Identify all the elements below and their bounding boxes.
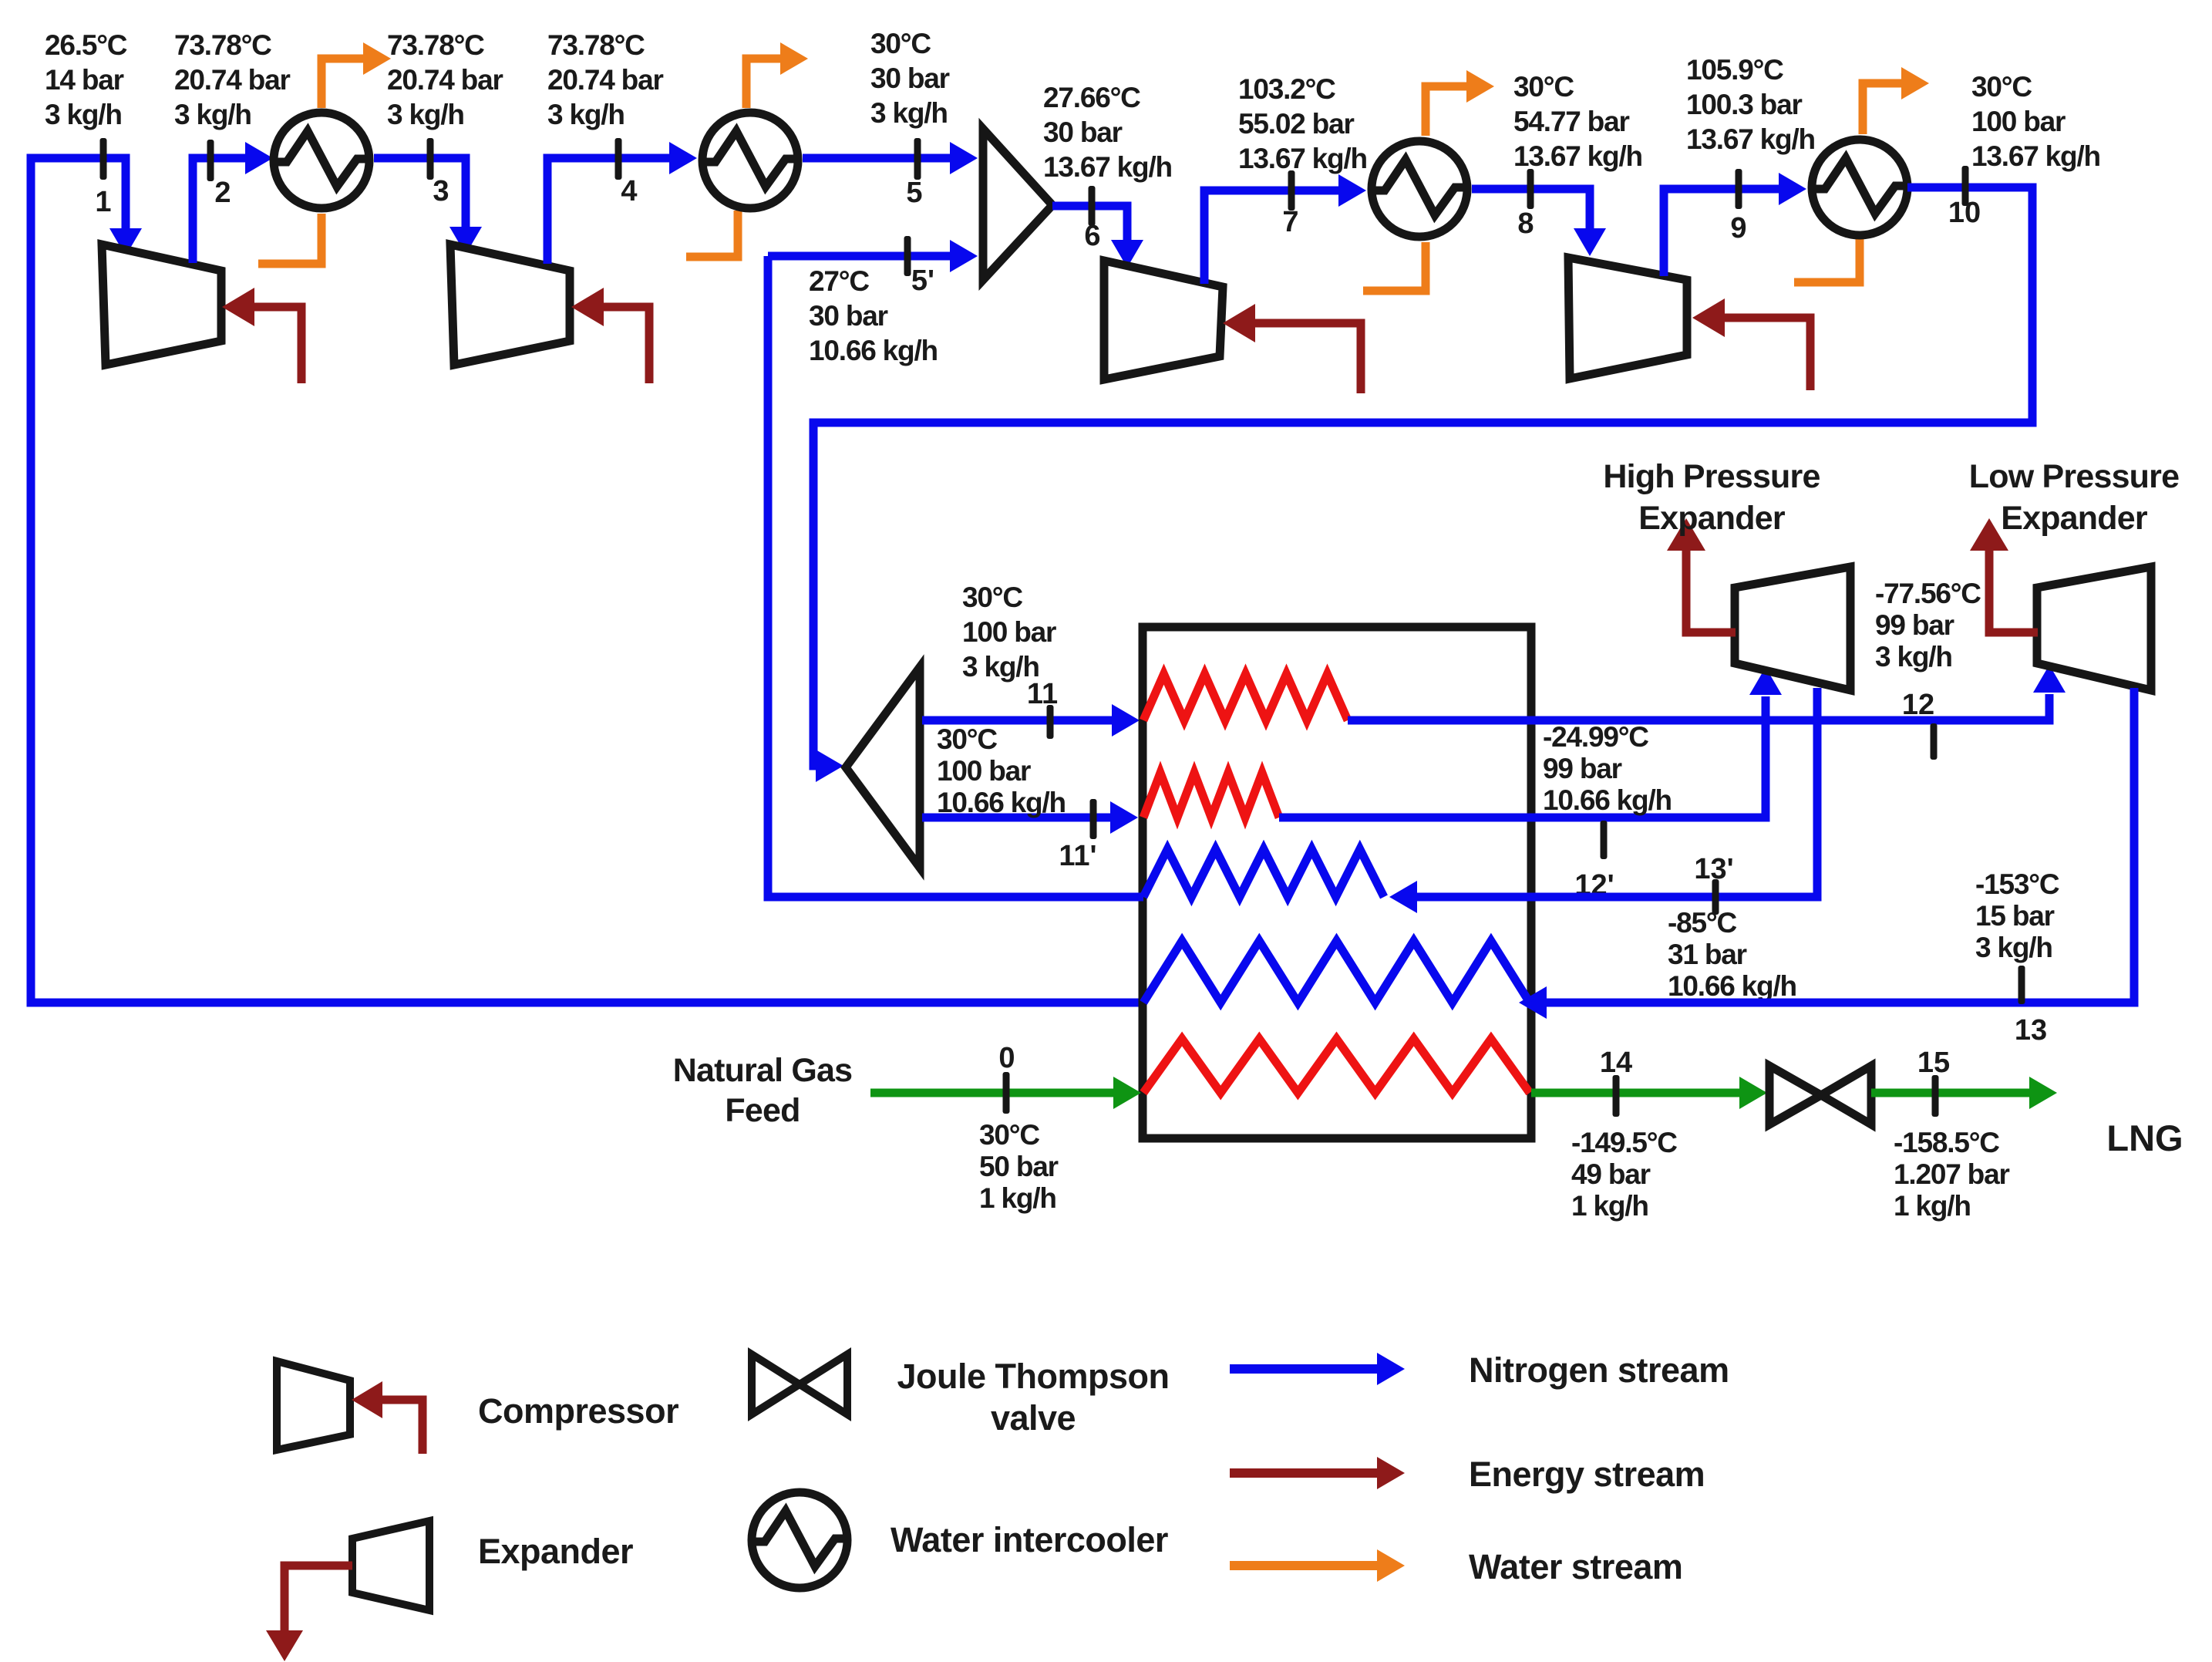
- label Natural Gas Feed: [673, 1052, 853, 1129]
- label High Pressure Expander: [1603, 458, 1820, 537]
- text stream 9 data: [1686, 54, 1815, 155]
- mixer M1: [983, 129, 1052, 280]
- svg-text:1 kg/h: 1 kg/h: [979, 1182, 1056, 1214]
- node tick stream 5prime: [904, 236, 911, 276]
- text stream 8 data: [1513, 71, 1642, 172]
- svg-text:55.02 bar: 55.02 bar: [1238, 108, 1354, 140]
- text stream 4 data: [547, 29, 663, 130]
- HX coil stream 13 (cold): [1143, 941, 1530, 1003]
- svg-text:3 kg/h: 3 kg/h: [962, 651, 1039, 683]
- compressor K3: [1104, 261, 1223, 379]
- svg-text:30°C: 30°C: [937, 723, 997, 755]
- legend compressor symbol: [277, 1361, 350, 1450]
- svg-text:30°C: 30°C: [1513, 71, 1574, 103]
- svg-text:8: 8: [1517, 207, 1534, 240]
- svg-text:10: 10: [1948, 197, 1981, 229]
- node tick stream 9: [1736, 169, 1742, 209]
- svg-text:100 bar: 100 bar: [1971, 106, 2066, 137]
- label stream 12: [1902, 689, 1934, 721]
- svg-text:50 bar: 50 bar: [979, 1151, 1059, 1182]
- svg-text:12: 12: [1902, 689, 1934, 721]
- svg-text:Feed: Feed: [725, 1092, 800, 1129]
- wire stream 5prime: [768, 240, 978, 272]
- svg-text:3 kg/h: 3 kg/h: [174, 99, 251, 130]
- label stream 13: [2015, 1014, 2047, 1047]
- svg-text:100.3 bar: 100.3 bar: [1686, 89, 1802, 120]
- svg-text:73.78°C: 73.78°C: [387, 29, 484, 61]
- wire stream 7: [1204, 174, 1366, 284]
- svg-text:-158.5°C: -158.5°C: [1894, 1127, 1999, 1158]
- node tick stream 3: [427, 138, 434, 180]
- svg-text:5: 5: [906, 177, 922, 209]
- label stream 4: [621, 175, 637, 207]
- node tick stream 10: [1962, 166, 1969, 206]
- text stream 11prime data: [937, 723, 1066, 818]
- wire stream 4: [547, 142, 697, 264]
- legend label Water stream: [1469, 1547, 1682, 1586]
- energy stream into K4: [1692, 298, 1810, 390]
- wire stream 13prime: [1389, 688, 1817, 913]
- wire stream 12 to LP expander: [1348, 665, 2066, 720]
- text stream 3 data: [387, 29, 503, 130]
- svg-text:14: 14: [1600, 1047, 1632, 1079]
- svg-text:30°C: 30°C: [962, 582, 1022, 613]
- svg-text:Natural Gas: Natural Gas: [673, 1052, 853, 1089]
- label stream 12prime: [1574, 869, 1614, 902]
- compressor K1: [102, 244, 221, 365]
- svg-text:31 bar: 31 bar: [1668, 939, 1747, 970]
- wire stream 15 LNG out: [1871, 1077, 2057, 1109]
- node tick stream 12: [1931, 723, 1938, 760]
- svg-text:14 bar: 14 bar: [45, 64, 124, 96]
- label stream 0: [998, 1042, 1015, 1074]
- wire stream 6: [1052, 206, 1143, 268]
- svg-text:3 kg/h: 3 kg/h: [1975, 932, 2052, 963]
- text stream 6 data: [1043, 82, 1172, 183]
- text stream 5prime data: [809, 265, 938, 366]
- svg-text:0: 0: [998, 1042, 1015, 1074]
- svg-text:-149.5°C: -149.5°C: [1571, 1127, 1677, 1158]
- compressor K2: [450, 244, 570, 365]
- svg-text:11: 11: [1027, 678, 1058, 710]
- wire stream 13: [1519, 688, 2134, 1019]
- label stream 2: [214, 177, 231, 209]
- svg-text:15: 15: [1917, 1047, 1950, 1079]
- wire stream 2: [193, 142, 273, 263]
- svg-text:73.78°C: 73.78°C: [174, 29, 271, 61]
- svg-text:20.74 bar: 20.74 bar: [387, 64, 503, 96]
- label stream 10: [1948, 197, 1981, 229]
- svg-text:Energy stream: Energy stream: [1469, 1455, 1705, 1494]
- svg-text:2: 2: [214, 177, 231, 209]
- water intercooler E2: [700, 113, 800, 208]
- label stream 5prime: [911, 265, 934, 297]
- svg-text:13': 13': [1694, 853, 1733, 885]
- label Low Pressure Expander: [1969, 458, 2179, 537]
- label stream 9: [1730, 212, 1746, 244]
- svg-text:5': 5': [911, 265, 934, 297]
- label stream 1: [95, 186, 111, 218]
- wire stream 9: [1664, 173, 1806, 276]
- energy stream into K2: [571, 288, 649, 383]
- water stream into E1: [258, 214, 322, 264]
- water stream into E3: [1363, 242, 1426, 291]
- svg-text:10.66 kg/h: 10.66 kg/h: [1668, 970, 1796, 1002]
- text stream 13prime data: [1668, 907, 1796, 1002]
- svg-text:3 kg/h: 3 kg/h: [45, 99, 122, 130]
- node tick stream 0: [1003, 1072, 1010, 1114]
- node tick stream 1: [100, 138, 107, 180]
- svg-text:100 bar: 100 bar: [937, 755, 1031, 787]
- svg-text:1: 1: [95, 186, 111, 218]
- svg-text:Compressor: Compressor: [478, 1391, 678, 1431]
- energy stream out of HP expander: [1667, 518, 1736, 632]
- label stream 8: [1517, 207, 1534, 240]
- svg-text:11': 11': [1059, 840, 1096, 872]
- svg-text:10.66 kg/h: 10.66 kg/h: [809, 335, 938, 366]
- svg-text:1.207 bar: 1.207 bar: [1894, 1158, 2009, 1190]
- energy stream out of LP expander: [1970, 518, 2038, 632]
- HX coil natural gas (hot): [1143, 1039, 1530, 1093]
- legend label Expander: [478, 1532, 633, 1571]
- legend nitrogen stream arrow: [1230, 1353, 1405, 1385]
- legend label Energy stream: [1469, 1455, 1705, 1494]
- text stream 2 data: [174, 29, 290, 130]
- water stream out of E3: [1426, 70, 1494, 136]
- water intercooler E1: [271, 113, 372, 208]
- legend label Nitrogen stream: [1469, 1350, 1729, 1390]
- svg-text:27°C: 27°C: [809, 265, 869, 297]
- svg-text:20.74 bar: 20.74 bar: [547, 64, 663, 96]
- water stream out of E2: [746, 42, 808, 108]
- node tick stream 11: [1047, 705, 1054, 739]
- svg-text:3 kg/h: 3 kg/h: [547, 99, 625, 130]
- HX coil stream 11prime (hot): [1143, 773, 1279, 818]
- text stream 13 data: [1975, 868, 2059, 963]
- svg-text:13.67 kg/h: 13.67 kg/h: [1043, 151, 1172, 183]
- legend Joule Thompson valve symbol: [752, 1354, 847, 1414]
- wire stream 12prime to HP expander: [1279, 667, 1782, 818]
- text stream 5 data: [870, 28, 950, 129]
- svg-text:-24.99°C: -24.99°C: [1543, 721, 1648, 753]
- svg-text:99 bar: 99 bar: [1875, 609, 1954, 641]
- svg-text:30°C: 30°C: [870, 28, 931, 59]
- water intercooler E3: [1369, 141, 1470, 237]
- text stream 15 data: [1894, 1127, 2009, 1222]
- svg-text:3 kg/h: 3 kg/h: [870, 97, 948, 129]
- svg-text:30°C: 30°C: [979, 1119, 1039, 1151]
- svg-text:-85°C: -85°C: [1668, 907, 1736, 939]
- low pressure expander X2: [2037, 567, 2151, 690]
- svg-text:100 bar: 100 bar: [962, 616, 1056, 648]
- label stream 6: [1084, 220, 1100, 252]
- water stream into E2: [686, 211, 738, 257]
- node tick stream 13: [2018, 966, 2025, 1004]
- text stream 10 data: [1971, 71, 2100, 172]
- water intercooler E4: [1810, 140, 1910, 235]
- node tick stream 2: [207, 140, 214, 181]
- high pressure expander X1: [1735, 567, 1850, 690]
- label stream 11prime: [1059, 840, 1096, 872]
- wire stream 11prime: [922, 801, 1138, 834]
- wire stream 3: [374, 158, 482, 255]
- text stream 12 data: [1875, 578, 1981, 673]
- svg-text:7: 7: [1282, 206, 1298, 238]
- node tick stream 11prime: [1090, 799, 1097, 839]
- svg-text:-77.56°C: -77.56°C: [1875, 578, 1981, 609]
- svg-text:13.67 kg/h: 13.67 kg/h: [1686, 123, 1815, 155]
- water stream out of E4: [1863, 67, 1929, 134]
- wire stream 10 return: [813, 187, 2032, 782]
- text stream 1 data: [45, 29, 127, 130]
- Joule Thompson valve V1: [1769, 1066, 1871, 1124]
- svg-text:Nitrogen stream: Nitrogen stream: [1469, 1350, 1729, 1390]
- label stream 15: [1917, 1047, 1950, 1079]
- node tick stream 12prime: [1601, 821, 1608, 859]
- svg-text:Low Pressure: Low Pressure: [1969, 458, 2179, 495]
- svg-text:20.74 bar: 20.74 bar: [174, 64, 290, 96]
- svg-text:13: 13: [2015, 1014, 2047, 1047]
- compressor K4: [1568, 258, 1687, 379]
- HX coil stream 13prime (cold): [1143, 849, 1384, 897]
- text stream 14 data: [1571, 1127, 1677, 1222]
- label stream 3: [433, 175, 449, 207]
- HX coil stream 11 (hot): [1143, 674, 1348, 720]
- svg-text:1 kg/h: 1 kg/h: [1571, 1190, 1648, 1222]
- node tick stream 6: [1089, 186, 1096, 226]
- water stream out of E1: [322, 42, 391, 108]
- svg-text:Water intercooler: Water intercooler: [891, 1520, 1168, 1559]
- svg-text:Expander: Expander: [1638, 500, 1786, 537]
- svg-text:3: 3: [433, 175, 449, 207]
- wire stream 5: [803, 142, 978, 174]
- multi-stream heat exchanger HX box: [1143, 627, 1531, 1138]
- svg-text:103.2°C: 103.2°C: [1238, 73, 1335, 105]
- label stream 14: [1600, 1047, 1632, 1079]
- node tick stream 5: [914, 138, 921, 180]
- legend compressor energy arrow: [352, 1381, 423, 1454]
- svg-text:15 bar: 15 bar: [1975, 900, 2055, 932]
- water stream into E4: [1794, 239, 1860, 282]
- node tick stream 8: [1527, 169, 1534, 209]
- label stream 13prime: [1694, 853, 1733, 885]
- node tick stream 4: [615, 138, 622, 180]
- splitter S1: [846, 667, 920, 868]
- label stream 7: [1282, 206, 1298, 238]
- legend water stream arrow: [1230, 1549, 1405, 1582]
- svg-text:9: 9: [1730, 212, 1746, 244]
- svg-text:99 bar: 99 bar: [1543, 753, 1622, 784]
- svg-text:27.66°C: 27.66°C: [1043, 82, 1140, 113]
- svg-text:10.66 kg/h: 10.66 kg/h: [937, 787, 1066, 818]
- svg-text:30°C: 30°C: [1971, 71, 2032, 103]
- svg-text:Water stream: Water stream: [1469, 1547, 1682, 1586]
- svg-text:26.5°C: 26.5°C: [45, 29, 127, 61]
- label stream 11: [1027, 678, 1058, 710]
- legend expander energy arrow: [266, 1566, 352, 1661]
- svg-text:4: 4: [621, 175, 637, 207]
- svg-text:30 bar: 30 bar: [809, 300, 888, 332]
- svg-text:1 kg/h: 1 kg/h: [1894, 1190, 1971, 1222]
- svg-text:High Pressure: High Pressure: [1603, 458, 1820, 495]
- energy stream into K3: [1223, 304, 1361, 393]
- svg-text:105.9°C: 105.9°C: [1686, 54, 1783, 86]
- svg-text:3 kg/h: 3 kg/h: [1875, 641, 1952, 673]
- text stream 7 data: [1238, 73, 1367, 174]
- svg-text:Joule Thompson: Joule Thompson: [897, 1357, 1170, 1396]
- wire natural gas feed stream 0: [870, 1077, 1141, 1109]
- label LNG: [2106, 1118, 2183, 1158]
- svg-text:10.66 kg/h: 10.66 kg/h: [1543, 784, 1672, 816]
- wire stream 13 to 1 left return loop: [31, 158, 1143, 1003]
- wire stream 11: [922, 704, 1140, 737]
- legend label Water intercooler: [891, 1520, 1168, 1559]
- node tick stream 15: [1932, 1075, 1939, 1117]
- legend water intercooler symbol: [749, 1492, 850, 1588]
- legend expander symbol: [352, 1521, 429, 1610]
- node tick stream 13prime: [1712, 879, 1719, 915]
- legend label Joule Thompson valve: [897, 1357, 1170, 1438]
- legend label Compressor: [478, 1391, 678, 1431]
- svg-text:30 bar: 30 bar: [1043, 116, 1123, 148]
- text stream 12prime data: [1543, 721, 1672, 816]
- svg-text:49 bar: 49 bar: [1571, 1158, 1651, 1190]
- legend energy stream arrow: [1230, 1457, 1405, 1489]
- svg-text:13.67 kg/h: 13.67 kg/h: [1238, 143, 1367, 174]
- wire stream 14: [1531, 1077, 1767, 1109]
- node tick stream 14: [1613, 1075, 1620, 1117]
- text stream 0 data: [979, 1119, 1059, 1214]
- svg-text:valve: valve: [991, 1398, 1076, 1438]
- svg-text:6: 6: [1084, 220, 1100, 252]
- wire stream 13prime to 5prime: [768, 256, 1143, 897]
- svg-text:13.67 kg/h: 13.67 kg/h: [1971, 140, 2100, 172]
- svg-text:Expander: Expander: [478, 1532, 633, 1571]
- svg-text:54.77 bar: 54.77 bar: [1513, 106, 1629, 137]
- svg-text:30 bar: 30 bar: [870, 62, 950, 94]
- node tick stream 7: [1288, 170, 1295, 211]
- label stream 5: [906, 177, 922, 209]
- svg-text:3 kg/h: 3 kg/h: [387, 99, 464, 130]
- svg-text:LNG: LNG: [2106, 1118, 2183, 1158]
- svg-text:Expander: Expander: [2001, 500, 2148, 537]
- svg-text:73.78°C: 73.78°C: [547, 29, 645, 61]
- svg-text:13.67 kg/h: 13.67 kg/h: [1513, 140, 1642, 172]
- wire stream 8: [1472, 189, 1606, 256]
- energy stream into K1: [222, 288, 301, 383]
- svg-text:-153°C: -153°C: [1975, 868, 2059, 900]
- text stream 11 data: [962, 582, 1056, 683]
